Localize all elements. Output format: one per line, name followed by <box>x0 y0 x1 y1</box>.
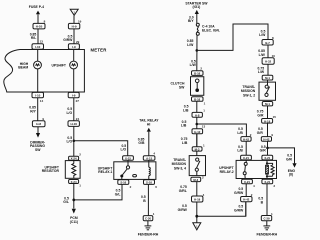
svg-text:B-16: B-16 <box>194 72 201 76</box>
svg-text:X-21: X-21 <box>244 180 250 184</box>
connector H-19 <box>262 119 273 124</box>
svg-text:SW: SW <box>179 85 185 89</box>
svg-text:L/W: L/W <box>190 63 197 67</box>
connector I-9 (meter top) <box>68 44 79 49</box>
wire 0.75 L/B <box>196 134 198 147</box>
svg-text:L/W: L/W <box>187 43 194 47</box>
svg-text:L/B: L/B <box>237 149 243 153</box>
relay-2 switch <box>245 160 247 162</box>
svg-text:G/L: G/L <box>63 200 69 204</box>
wire 0.5 G/R <box>267 141 269 155</box>
wire 0.85 G/B <box>148 132 150 156</box>
svg-text:FENDER-RH: FENDER-RH <box>256 232 277 236</box>
svg-text:L/O: L/O <box>66 140 72 144</box>
svg-text:(IG1): (IG1) <box>193 5 201 9</box>
junction node <box>195 215 198 218</box>
connector S-16 (left) <box>118 180 129 185</box>
svg-text:M-3: M-3 <box>193 178 198 182</box>
wire branch to relay-2 H-42 <box>197 202 246 216</box>
svg-text:FENDER-RH: FENDER-RH <box>138 232 159 236</box>
junction node <box>266 147 269 150</box>
svg-text:13: 13 <box>40 40 44 44</box>
svg-text:H-42: H-42 <box>243 198 250 202</box>
connector X-21 (bottom left) <box>242 179 253 184</box>
svg-text:SW-3, 4: SW-3, 4 <box>174 166 186 170</box>
clutch switch <box>191 77 204 96</box>
connector I-10 (meter top) <box>32 44 44 49</box>
ground FENDER-RH <box>147 221 149 226</box>
wire 3.0 B/Y <box>196 14 198 23</box>
svg-text:L/O: L/O <box>66 111 72 115</box>
svg-text:H-8: H-8 <box>195 113 200 117</box>
svg-text:27: 27 <box>76 99 80 103</box>
arrow to ENG <box>292 163 296 167</box>
relay-2 coil with parallel resistor <box>266 160 268 164</box>
svg-text:H-12: H-12 <box>194 130 201 134</box>
svg-text:G/L: G/L <box>115 192 121 196</box>
connector H-42 (right) <box>261 137 271 142</box>
arrow from starter sw <box>195 10 199 14</box>
junction node <box>72 199 75 202</box>
svg-text:M-3: M-3 <box>195 147 200 151</box>
wire branch to relay-1 S-16 <box>74 184 122 200</box>
wire 0.75 G/RL <box>196 182 198 196</box>
wire <box>37 69 39 93</box>
svg-text:G/R: G/R <box>257 113 264 117</box>
svg-text:L/W: L/W <box>259 33 266 37</box>
transmission switch SW-1,2 <box>259 82 276 100</box>
svg-text:X-21: X-21 <box>243 156 249 160</box>
upshift resistor R <box>65 161 80 179</box>
wire 0.5 L/O <box>73 98 75 121</box>
svg-text:G/R: G/R <box>260 149 267 153</box>
svg-text:L/B: L/B <box>182 141 188 145</box>
svg-text:R/L: R/L <box>31 36 36 40</box>
svg-text:C-39: C-39 <box>263 217 270 221</box>
svg-text:M-1: M-1 <box>265 76 270 80</box>
svg-text:13: 13 <box>202 125 206 129</box>
svg-text:HI: HI <box>147 122 150 126</box>
connector B-16 (bottom) <box>192 97 204 102</box>
svg-text:G/RW: G/RW <box>234 191 244 195</box>
connector C-30 <box>143 216 153 221</box>
svg-text:H-32: H-32 <box>265 60 272 64</box>
svg-text:L/B: L/B <box>181 124 187 128</box>
wire 0.5 G/RW to junction <box>245 202 247 217</box>
svg-text:FUSE P-4: FUSE P-4 <box>29 5 44 9</box>
wire 0.75 G/R <box>267 106 269 119</box>
connector H-12 <box>192 129 203 134</box>
wire 0.5 L/O down to resistor <box>73 126 75 156</box>
wire 0.85 R/L <box>37 29 39 44</box>
svg-text:H-55: H-55 <box>36 25 43 29</box>
svg-text:L/B: L/B <box>237 131 243 135</box>
wire <box>37 14 39 23</box>
connector X-24 (bottom) <box>69 180 79 184</box>
svg-text:G/RW: G/RW <box>63 38 73 42</box>
svg-text:C-30: C-30 <box>145 217 152 221</box>
transmission switch SW-3,4 <box>189 156 205 176</box>
svg-text:G/RL: G/RL <box>179 189 187 193</box>
connector B-7 <box>262 40 273 46</box>
connector X-21 (top right) <box>262 155 273 160</box>
svg-text:RELAY-2: RELAY-2 <box>220 170 234 174</box>
svg-text:H-8: H-8 <box>36 122 41 126</box>
connector B-16 (top) <box>192 71 204 76</box>
ground FENDER-RH <box>266 221 268 226</box>
svg-text:15: 15 <box>273 115 277 119</box>
wire 0.5 G/RW <box>73 29 75 44</box>
svg-text:M-1: M-1 <box>265 102 270 106</box>
svg-text:H-42: H-42 <box>243 137 250 141</box>
arrow to tail relay <box>147 128 151 132</box>
svg-text:UPSHIFT: UPSHIFT <box>51 64 66 68</box>
wire 0.5 G/RW <box>196 202 198 223</box>
svg-text:R/Y: R/Y <box>30 109 36 113</box>
svg-text:H-16: H-16 <box>70 122 77 126</box>
svg-text:L/O: L/O <box>121 148 127 152</box>
svg-text:RESISTOR: RESISTOR <box>42 169 60 173</box>
connector M-1 (top) <box>262 75 273 80</box>
wire branch to H-42 <box>197 124 247 137</box>
connector H-16 <box>68 121 79 127</box>
relay-1 coil <box>148 160 150 167</box>
wire branch to ENG <box>268 148 295 164</box>
connector X-21 (top left) <box>241 155 252 160</box>
svg-text:SW: SW <box>35 148 41 152</box>
connector H-42 (bottom) <box>241 197 252 202</box>
wire 0.5 L/B <box>196 117 198 147</box>
svg-text:I-10: I-10 <box>35 45 41 49</box>
junction node <box>196 123 199 126</box>
svg-text:H-9: H-9 <box>72 25 77 29</box>
meter box outline with torn left edge <box>4 50 85 93</box>
arrow to fuse P-4 <box>36 11 40 15</box>
wire 0.75 L/W <box>267 64 269 75</box>
svg-text:H-19: H-19 <box>194 198 201 202</box>
wire branch to upshift relay-1 X-15 <box>74 141 128 156</box>
svg-text:I-10: I-10 <box>35 94 41 98</box>
wire 0.5 B to ground <box>266 184 268 216</box>
svg-text:I-9: I-9 <box>72 94 76 98</box>
wire 0.5 G/R <box>267 123 269 137</box>
connector I-10 (meter bottom) <box>32 92 44 97</box>
connector I-9 (meter bottom) <box>68 92 79 97</box>
svg-text:ELEC. IGN.: ELEC. IGN. <box>202 28 220 32</box>
svg-text:X-24: X-24 <box>71 157 77 161</box>
svg-text:G/R: G/R <box>257 131 264 135</box>
svg-text:L/W: L/W <box>258 70 265 74</box>
node off-page triangle 1 (bottom) <box>193 223 201 230</box>
wire 0.85 L/W <box>267 45 269 58</box>
svg-text:X-24: X-24 <box>71 180 77 184</box>
connector M-3 (bottom) <box>191 177 201 181</box>
relay-1 switch <box>127 160 129 166</box>
wire <box>73 15 75 23</box>
svg-text:G/RW: G/RW <box>234 208 244 212</box>
svg-text:S-16: S-16 <box>120 181 126 185</box>
fuse C-4 10A ELEC. IGN. <box>196 23 199 26</box>
svg-text:G/RW: G/RW <box>178 208 188 212</box>
svg-text:X-21: X-21 <box>264 180 270 184</box>
svg-text:(8): (8) <box>289 172 293 176</box>
wire 0.5 G/RW <box>245 184 247 197</box>
wire 0.5 L/B <box>245 141 247 155</box>
svg-text:RELAY-1: RELAY-1 <box>98 170 112 174</box>
wire <box>196 151 198 156</box>
connector H-19 <box>192 196 203 202</box>
svg-text:(C11): (C11) <box>70 220 78 224</box>
connector H-32 <box>262 58 274 64</box>
wire branch to B-7 <box>197 24 268 50</box>
arrow to PCM <box>72 209 76 214</box>
connector X-21 (bottom right) <box>262 179 273 184</box>
svg-text:G/B: G/B <box>138 141 145 145</box>
svg-text:X-15: X-15 <box>125 157 131 161</box>
svg-text:I-9: I-9 <box>72 45 76 49</box>
svg-text:H-42: H-42 <box>263 137 270 141</box>
wire <box>73 69 75 93</box>
junction node <box>73 140 76 143</box>
connector M-1 (bottom) <box>262 102 272 106</box>
connector X-15 <box>123 156 134 161</box>
connector C-39 <box>261 216 271 221</box>
wire 0.5 G/L to PCM <box>73 184 75 209</box>
svg-text:B-7: B-7 <box>265 41 270 45</box>
wire 0.85 L/W <box>196 35 198 71</box>
connector M-3 (top) <box>192 147 202 151</box>
svg-text:SW-1, 2: SW-1, 2 <box>243 93 255 97</box>
svg-text:L/W: L/W <box>259 53 266 57</box>
junction node <box>196 49 199 52</box>
connector H-42 (left) <box>241 137 251 142</box>
svg-text:S-16: S-16 <box>146 181 152 185</box>
svg-text:14: 14 <box>40 99 44 103</box>
wire 0.85 R/Y <box>37 98 39 121</box>
svg-text:G/R: G/R <box>286 157 293 161</box>
connector S-16 (right) <box>144 180 155 185</box>
connector A-15 <box>143 156 155 161</box>
connector H-8 <box>192 112 202 117</box>
svg-text:BEAM: BEAM <box>18 66 28 70</box>
svg-text:X-21: X-21 <box>264 156 270 160</box>
svg-text:B-16: B-16 <box>194 98 201 102</box>
wire 0.5 L/B <box>196 101 198 112</box>
relay-2 box <box>236 160 276 178</box>
arrow to dimmer-passing sw <box>36 133 40 138</box>
svg-text:A-15: A-15 <box>146 157 153 161</box>
node off-page triangle 1 <box>70 9 78 15</box>
wire to dimmer-passing sw <box>37 127 39 133</box>
svg-text:29: 29 <box>76 40 80 44</box>
svg-text:L/B: L/B <box>183 108 189 112</box>
svg-text:H-19: H-19 <box>264 119 271 123</box>
wire 0.5 B to ground <box>147 184 149 215</box>
connector H-8 <box>32 121 45 127</box>
relay-1 box <box>114 162 156 180</box>
svg-text:B/Y: B/Y <box>188 19 194 23</box>
svg-text:METER: METER <box>91 48 108 53</box>
